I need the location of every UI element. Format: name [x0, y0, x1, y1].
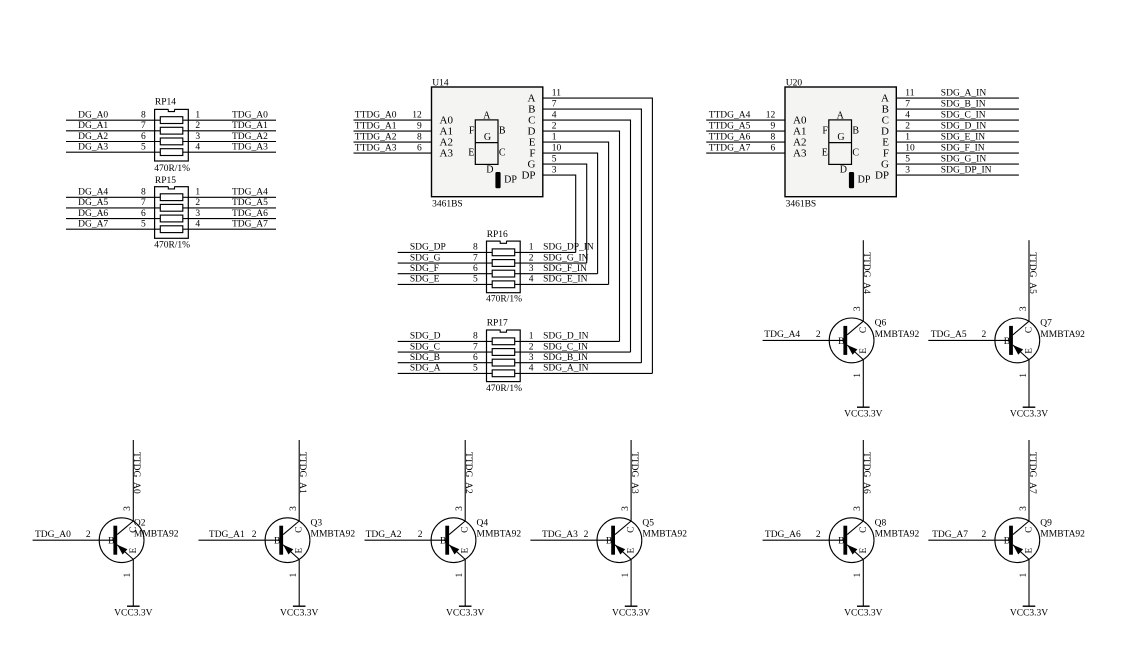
svg-text:C: C: [627, 527, 637, 533]
svg-text:TDG_A6: TDG_A6: [232, 209, 268, 219]
transistor Q3 MMBTA92 PNP: [265, 518, 310, 563]
svg-text:2: 2: [816, 330, 821, 340]
resistor RP17.2: [492, 349, 515, 356]
svg-text:B: B: [274, 537, 280, 547]
wire U14 pin 4 (C) to resistor network: [543, 120, 631, 352]
svg-text:DP: DP: [504, 174, 517, 185]
svg-text:TDG_A1: TDG_A1: [232, 121, 268, 131]
svg-text:3: 3: [455, 506, 465, 511]
transistor Q6 MMBTA92 PNP: [829, 318, 874, 363]
svg-text:DG_A2: DG_A2: [78, 132, 108, 142]
svg-text:E: E: [468, 148, 474, 159]
svg-text:470R/1%: 470R/1%: [154, 164, 190, 174]
segment G divider: [829, 142, 852, 144]
svg-text:8: 8: [473, 332, 478, 342]
base wire net TDG_A2: [365, 539, 446, 541]
svg-text:TDG_A4: TDG_A4: [764, 330, 800, 340]
svg-text:DP: DP: [875, 170, 889, 182]
svg-text:F: F: [469, 126, 475, 137]
svg-text:RP17: RP17: [487, 319, 508, 329]
svg-text:VCC3.3V: VCC3.3V: [612, 609, 650, 619]
svg-text:5: 5: [905, 155, 910, 165]
base wire net TDG_A4: [763, 339, 844, 341]
power symbol VCC3.3V bar: [857, 605, 870, 607]
svg-text:DG_A3: DG_A3: [78, 143, 108, 153]
svg-text:2: 2: [982, 530, 987, 540]
wire SDG_C to SDG_C_IN (pin 7 to pin 2): [398, 351, 631, 353]
svg-text:1: 1: [853, 573, 863, 578]
svg-text:MMBTA92: MMBTA92: [1040, 330, 1085, 340]
svg-text:MMBTA92: MMBTA92: [477, 530, 522, 540]
svg-text:6: 6: [141, 209, 146, 219]
svg-text:TTDG_A7: TTDG_A7: [709, 143, 751, 153]
svg-text:C: C: [499, 148, 506, 159]
svg-text:9: 9: [770, 121, 775, 131]
svg-text:B: B: [852, 126, 859, 137]
resistor RP16.3: [492, 270, 515, 277]
svg-text:8: 8: [770, 132, 775, 142]
base wire net TDG_A6: [763, 539, 844, 541]
svg-text:TDG_A2: TDG_A2: [366, 530, 402, 540]
transistor Q7 MMBTA92 PNP: [995, 318, 1040, 363]
wire DG_A3 to TDG_A3 (pin 5 to pin 4): [66, 151, 276, 153]
svg-text:10: 10: [552, 144, 562, 154]
svg-text:A: A: [483, 110, 491, 121]
wire U20 pin 10 net SDG_F_IN: [896, 152, 1019, 154]
power symbol VCC3.3V bar: [293, 605, 306, 607]
wire U20 pin 5 net SDG_G_IN: [896, 163, 1019, 165]
svg-text:C: C: [859, 527, 869, 533]
svg-text:MMBTA92: MMBTA92: [311, 530, 356, 540]
svg-text:4: 4: [905, 111, 910, 121]
svg-text:10: 10: [905, 144, 915, 154]
svg-text:6: 6: [417, 143, 422, 153]
svg-text:DG_A4: DG_A4: [78, 188, 108, 198]
svg-text:SDG_D_IN: SDG_D_IN: [941, 122, 987, 132]
wire U20 pin 7 net SDG_B_IN: [896, 108, 1019, 110]
wire SDG_DP to SDG_DP_IN (pin 8 to pin 1): [398, 251, 576, 253]
svg-text:2: 2: [195, 198, 200, 208]
wire net TTDG_A7 to U20 pin 6: [706, 152, 785, 154]
svg-text:3: 3: [123, 506, 133, 511]
svg-text:8: 8: [141, 188, 146, 198]
emitter wire to VCC3.3V: [862, 360, 864, 408]
svg-text:1: 1: [1019, 373, 1029, 378]
svg-text:Q7: Q7: [1040, 319, 1052, 329]
wire DG_A7 to TDG_A7 (pin 5 to pin 4): [66, 228, 276, 230]
power symbol VCC3.3V bar: [625, 605, 638, 607]
svg-text:VCC3.3V: VCC3.3V: [114, 609, 152, 619]
svg-text:C: C: [1025, 527, 1035, 533]
svg-text:7: 7: [141, 121, 146, 131]
wire SDG_F to SDG_F_IN (pin 6 to pin 3): [398, 273, 598, 275]
resistor RP16.4: [492, 281, 515, 288]
resistor RP17.1: [492, 338, 515, 345]
svg-text:E: E: [859, 348, 869, 354]
svg-text:Q2: Q2: [134, 518, 146, 528]
wire U20 pin 11 net SDG_A_IN: [896, 97, 1019, 99]
svg-text:3: 3: [853, 506, 863, 511]
svg-text:E: E: [627, 548, 637, 554]
power symbol VCC3.3V bar: [1023, 605, 1036, 607]
svg-text:D: D: [486, 165, 493, 176]
wire U14 pin 3 (DP) to resistor network: [543, 175, 576, 252]
svg-text:D: D: [840, 165, 847, 176]
svg-text:SDG_DP_IN: SDG_DP_IN: [543, 243, 594, 253]
resistor RP14.4: [160, 149, 183, 156]
resistor RP15.4: [160, 226, 183, 233]
svg-text:5: 5: [141, 220, 146, 230]
svg-text:2: 2: [816, 530, 821, 540]
svg-text:VCC3.3V: VCC3.3V: [1010, 410, 1048, 420]
svg-text:8: 8: [141, 111, 146, 121]
svg-text:F: F: [822, 126, 828, 137]
wire SDG_D to SDG_D_IN (pin 8 to pin 1): [398, 340, 620, 342]
collector wire net TTDG_A4: [862, 240, 864, 321]
svg-text:1: 1: [853, 373, 863, 378]
svg-text:E: E: [822, 148, 828, 159]
svg-text:TTDG_A7: TTDG_A7: [1027, 452, 1037, 494]
svg-text:3: 3: [1019, 306, 1029, 311]
svg-text:TDG_A7: TDG_A7: [932, 530, 968, 540]
svg-text:1: 1: [529, 332, 534, 342]
svg-text:VCC3.3V: VCC3.3V: [844, 410, 882, 420]
svg-text:1: 1: [552, 133, 557, 143]
svg-text:Q9: Q9: [1040, 518, 1052, 528]
wire U14 pin 11 (A) to resistor network: [543, 98, 653, 373]
wire U20 pin 4 net SDG_C_IN: [896, 119, 1019, 121]
svg-text:1: 1: [195, 111, 200, 121]
svg-text:A3: A3: [440, 148, 454, 160]
svg-text:TTDG_A6: TTDG_A6: [861, 452, 871, 494]
wire net TTDG_A3 to U14 pin 6: [354, 152, 432, 154]
wire SDG_E to SDG_E_IN (pin 5 to pin 4): [398, 283, 609, 285]
svg-text:MMBTA92: MMBTA92: [1040, 530, 1085, 540]
svg-text:3: 3: [529, 353, 534, 363]
emitter wire to VCC3.3V: [1028, 360, 1030, 408]
svg-text:7: 7: [473, 342, 478, 352]
wire DG_A6 to TDG_A6 (pin 6 to pin 3): [66, 218, 276, 220]
svg-text:2: 2: [584, 530, 589, 540]
svg-text:SDG_C_IN: SDG_C_IN: [941, 111, 986, 121]
resistor RP14.3: [160, 138, 183, 145]
svg-text:4: 4: [552, 111, 557, 121]
resistor RP15.2: [160, 204, 183, 211]
svg-text:TDG_A3: TDG_A3: [232, 143, 268, 153]
wire SDG_B to SDG_B_IN (pin 6 to pin 3): [398, 362, 642, 364]
svg-text:SDG_A_IN: SDG_A_IN: [543, 364, 589, 374]
svg-text:12: 12: [766, 110, 776, 120]
svg-text:1: 1: [1019, 573, 1029, 578]
svg-text:3: 3: [529, 264, 534, 274]
collector wire net TTDG_A1: [298, 440, 300, 521]
svg-text:SDG_E_IN: SDG_E_IN: [543, 275, 587, 285]
wire net TTDG_A2 to U14 pin 8: [354, 141, 432, 143]
svg-text:2: 2: [905, 122, 910, 132]
svg-text:SDG_F: SDG_F: [410, 264, 439, 274]
collector wire net TTDG_A0: [132, 440, 134, 521]
wire U14 pin 10 (F) to resistor network: [543, 153, 598, 274]
svg-text:2: 2: [529, 342, 534, 352]
base wire net TDG_A3: [530, 539, 611, 541]
svg-text:1: 1: [905, 133, 910, 143]
svg-text:SDG_D_IN: SDG_D_IN: [543, 332, 589, 342]
svg-text:SDG_DP_IN: SDG_DP_IN: [941, 166, 992, 176]
svg-text:5: 5: [473, 364, 478, 374]
IC U14 3461BS seven-segment display body: [432, 87, 543, 197]
svg-text:E: E: [295, 548, 305, 554]
svg-text:VCC3.3V: VCC3.3V: [844, 609, 882, 619]
svg-text:8: 8: [417, 132, 422, 142]
svg-text:11: 11: [905, 89, 914, 99]
svg-text:TDG_A5: TDG_A5: [232, 198, 268, 208]
svg-text:TDG_A0: TDG_A0: [232, 111, 268, 121]
wire net TTDG_A1 to U14 pin 9: [354, 130, 432, 132]
resistor network RP14: [155, 109, 189, 162]
wire net TTDG_A6 to U20 pin 8: [706, 141, 785, 143]
svg-text:TTDG_A4: TTDG_A4: [861, 252, 871, 294]
svg-text:Q3: Q3: [311, 518, 323, 528]
svg-text:B: B: [838, 537, 844, 547]
svg-text:TDG_A4: TDG_A4: [232, 188, 268, 198]
emitter wire to VCC3.3V: [464, 559, 466, 606]
svg-text:3: 3: [1019, 506, 1029, 511]
svg-text:4: 4: [529, 364, 534, 374]
svg-text:1: 1: [455, 573, 465, 578]
svg-text:470R/1%: 470R/1%: [486, 295, 522, 305]
power symbol VCC3.3V bar: [857, 406, 870, 408]
svg-text:TDG_A2: TDG_A2: [232, 132, 268, 142]
svg-text:6: 6: [473, 264, 478, 274]
transistor Q9 MMBTA92 PNP: [995, 518, 1040, 563]
transistor Q8 MMBTA92 PNP: [829, 518, 874, 563]
collector wire net TTDG_A7: [1028, 440, 1030, 521]
svg-text:E: E: [1025, 548, 1035, 554]
svg-text:TDG_A0: TDG_A0: [35, 530, 71, 540]
svg-text:Q6: Q6: [875, 319, 887, 329]
svg-text:4: 4: [195, 143, 200, 153]
svg-text:Q5: Q5: [642, 518, 654, 528]
svg-text:SDG_A: SDG_A: [410, 364, 441, 374]
svg-text:5: 5: [552, 155, 557, 165]
wire SDG_A to SDG_A_IN (pin 5 to pin 4): [398, 372, 653, 374]
svg-text:DG_A1: DG_A1: [78, 121, 108, 131]
svg-text:TTDG_A2: TTDG_A2: [355, 132, 397, 142]
seven-segment glyph outline: [475, 120, 498, 164]
svg-text:1: 1: [195, 188, 200, 198]
emitter wire to VCC3.3V: [862, 559, 864, 606]
svg-text:6: 6: [770, 143, 775, 153]
svg-text:6: 6: [473, 353, 478, 363]
resistor RP15.3: [160, 215, 183, 222]
resistor RP16.2: [492, 260, 515, 267]
svg-text:7: 7: [473, 253, 478, 263]
svg-text:B: B: [1004, 337, 1010, 347]
svg-text:12: 12: [412, 110, 422, 120]
svg-text:TTDG_A1: TTDG_A1: [297, 452, 307, 494]
svg-text:7: 7: [552, 100, 557, 110]
svg-text:TTDG_A3: TTDG_A3: [355, 143, 397, 153]
svg-text:G: G: [484, 132, 491, 143]
svg-text:TTDG_A1: TTDG_A1: [355, 121, 397, 131]
svg-text:TTDG_A6: TTDG_A6: [709, 132, 751, 142]
svg-text:1: 1: [621, 573, 631, 578]
svg-text:3: 3: [195, 209, 200, 219]
wire U20 pin 3 net SDG_DP_IN: [896, 174, 1019, 176]
svg-text:DG_A0: DG_A0: [78, 111, 108, 121]
resistor RP17.4: [492, 370, 515, 377]
wire U20 pin 2 net SDG_D_IN: [896, 130, 1019, 132]
svg-text:MMBTA92: MMBTA92: [134, 530, 179, 540]
wire DG_A2 to TDG_A2 (pin 6 to pin 3): [66, 141, 276, 143]
svg-text:TTDG_A0: TTDG_A0: [355, 110, 397, 120]
svg-text:3: 3: [289, 506, 299, 511]
svg-text:DG_A7: DG_A7: [78, 220, 108, 230]
resistor RP14.1: [160, 117, 183, 124]
svg-text:B: B: [606, 537, 612, 547]
wire SDG_G to SDG_G_IN (pin 7 to pin 2): [398, 262, 587, 264]
svg-text:VCC3.3V: VCC3.3V: [1010, 609, 1048, 619]
svg-text:E: E: [461, 548, 471, 554]
base wire net TDG_A0: [33, 539, 114, 541]
svg-text:SDG_E: SDG_E: [410, 275, 440, 285]
svg-text:SDG_G_IN: SDG_G_IN: [941, 155, 987, 165]
IC U20 3461BS seven-segment display body: [785, 87, 896, 197]
svg-text:SDG_B_IN: SDG_B_IN: [941, 100, 986, 110]
power symbol VCC3.3V bar: [1023, 406, 1036, 408]
resistor RP16.1: [492, 249, 515, 256]
svg-text:4: 4: [195, 220, 200, 230]
resistor network RP17: [487, 329, 521, 382]
svg-text:A: A: [837, 110, 845, 121]
svg-text:RP15: RP15: [155, 176, 176, 186]
svg-text:C: C: [859, 327, 869, 333]
svg-text:B: B: [440, 537, 446, 547]
transistor Q4 MMBTA92 PNP: [431, 518, 476, 563]
wire U14 pin 2 (D) to resistor network: [543, 131, 620, 341]
svg-text:TTDG_A3: TTDG_A3: [629, 452, 639, 494]
svg-text:VCC3.3V: VCC3.3V: [280, 609, 318, 619]
svg-text:5: 5: [473, 275, 478, 285]
decimal point DP bar: [495, 172, 500, 188]
svg-text:3: 3: [905, 166, 910, 176]
svg-text:E: E: [1025, 348, 1035, 354]
svg-text:TTDG_A4: TTDG_A4: [709, 110, 751, 120]
svg-text:3: 3: [853, 306, 863, 311]
svg-text:TTDG_A5: TTDG_A5: [1027, 252, 1037, 294]
svg-text:2: 2: [982, 330, 987, 340]
svg-text:3: 3: [195, 132, 200, 142]
svg-text:E: E: [129, 548, 139, 554]
collector wire net TTDG_A3: [630, 440, 632, 521]
base wire net TDG_A7: [928, 539, 1009, 541]
wire U14 pin 5 (G) to resistor network: [543, 164, 587, 263]
svg-text:Q8: Q8: [875, 518, 887, 528]
svg-text:1: 1: [123, 573, 133, 578]
svg-text:DP: DP: [858, 174, 871, 185]
svg-text:SDG_F_IN: SDG_F_IN: [543, 264, 587, 274]
svg-text:8: 8: [473, 243, 478, 253]
resistor RP15.1: [160, 194, 183, 201]
svg-text:E: E: [859, 548, 869, 554]
base wire net TDG_A1: [199, 539, 280, 541]
emitter wire to VCC3.3V: [1028, 559, 1030, 606]
svg-text:SDG_C_IN: SDG_C_IN: [543, 342, 588, 352]
svg-text:DP: DP: [521, 170, 535, 182]
wire DG_A0 to TDG_A0 (pin 8 to pin 1): [66, 119, 276, 121]
wire DG_A5 to TDG_A5 (pin 7 to pin 2): [66, 207, 276, 209]
collector wire net TTDG_A5: [1028, 240, 1030, 321]
svg-text:SDG_C: SDG_C: [410, 342, 440, 352]
svg-text:TTDG_A0: TTDG_A0: [131, 452, 141, 494]
svg-text:MMBTA92: MMBTA92: [642, 530, 687, 540]
svg-text:2: 2: [529, 253, 534, 263]
svg-text:RP14: RP14: [155, 98, 176, 108]
svg-text:DG_A6: DG_A6: [78, 209, 108, 219]
svg-text:3461BS: 3461BS: [432, 200, 463, 210]
svg-text:2: 2: [552, 122, 557, 132]
svg-text:3461BS: 3461BS: [786, 200, 817, 210]
svg-text:B: B: [838, 337, 844, 347]
svg-text:TDG_A6: TDG_A6: [765, 530, 801, 540]
svg-text:VCC3.3V: VCC3.3V: [446, 609, 484, 619]
emitter wire to VCC3.3V: [298, 559, 300, 606]
svg-text:3: 3: [621, 506, 631, 511]
power symbol VCC3.3V bar: [127, 605, 140, 607]
svg-text:SDG_A_IN: SDG_A_IN: [941, 89, 987, 99]
svg-text:9: 9: [417, 121, 422, 131]
decimal point DP bar: [849, 172, 854, 188]
svg-text:MMBTA92: MMBTA92: [875, 530, 920, 540]
svg-text:B: B: [108, 537, 114, 547]
svg-text:TDG_A3: TDG_A3: [542, 530, 578, 540]
resistor network RP15: [155, 186, 189, 238]
svg-text:A3: A3: [793, 148, 807, 160]
svg-text:G: G: [837, 132, 844, 143]
wire DG_A1 to TDG_A1 (pin 7 to pin 2): [66, 130, 276, 132]
base wire net TDG_A5: [928, 339, 1009, 341]
svg-text:4: 4: [529, 275, 534, 285]
transistor Q5 MMBTA92 PNP: [597, 518, 642, 563]
svg-text:470R/1%: 470R/1%: [154, 241, 190, 251]
svg-text:5: 5: [141, 143, 146, 153]
svg-text:TDG_A1: TDG_A1: [209, 530, 245, 540]
transistor Q2 MMBTA92 PNP: [99, 518, 144, 563]
wire net TTDG_A5 to U20 pin 9: [706, 130, 785, 132]
svg-text:1: 1: [289, 573, 299, 578]
svg-text:TDG_A5: TDG_A5: [931, 330, 967, 340]
svg-text:C: C: [295, 527, 305, 533]
wire net TTDG_A4 to U20 pin 12: [706, 119, 785, 121]
svg-text:SDG_B_IN: SDG_B_IN: [543, 353, 588, 363]
svg-text:C: C: [461, 527, 471, 533]
svg-text:C: C: [1025, 327, 1035, 333]
svg-text:SDG_B: SDG_B: [410, 353, 440, 363]
resistor network RP16: [487, 240, 521, 293]
collector wire net TTDG_A2: [464, 440, 466, 521]
wire U20 pin 1 net SDG_E_IN: [896, 141, 1019, 143]
svg-text:RP16: RP16: [487, 230, 508, 240]
wire DG_A4 to TDG_A4 (pin 8 to pin 1): [66, 196, 276, 198]
svg-text:SDG_G: SDG_G: [410, 253, 441, 263]
wire U14 pin 7 (B) to resistor network: [543, 109, 642, 363]
svg-text:U20: U20: [786, 78, 803, 88]
svg-text:SDG_DP: SDG_DP: [410, 243, 446, 253]
svg-text:7: 7: [905, 100, 910, 110]
svg-text:MMBTA92: MMBTA92: [875, 330, 920, 340]
svg-text:1: 1: [529, 243, 534, 253]
seven-segment glyph outline: [829, 120, 852, 164]
